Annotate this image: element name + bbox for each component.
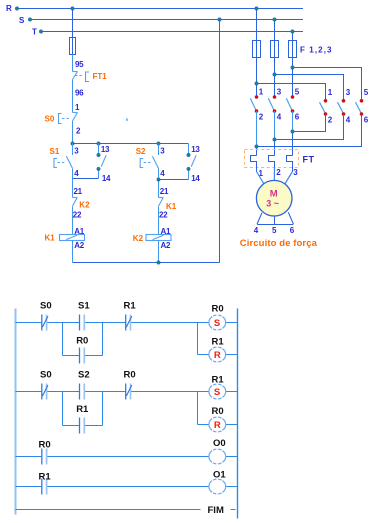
- svg-text:A2: A2: [161, 241, 171, 250]
- ladder right rail: [237, 309, 239, 519]
- svg-text:S2: S2: [78, 369, 90, 380]
- rung 3 wire segments: [16, 456, 42, 458]
- wire K2 to coil K1: [72, 207, 74, 235]
- svg-text:R: R: [214, 420, 221, 431]
- svg-text:R1: R1: [39, 471, 52, 482]
- svg-text:A2: A2: [74, 241, 84, 250]
- svg-text:FIM: FIM: [208, 505, 224, 516]
- svg-text:21: 21: [74, 187, 83, 196]
- junction S-L2: [273, 18, 276, 21]
- contactor K2 pole 5-6: [356, 102, 362, 113]
- wire FT1 to S0: [72, 80, 74, 113]
- svg-text:S1: S1: [50, 147, 60, 156]
- contact R1 rung1 NC: [125, 315, 127, 331]
- contact R1 parallel rung2 NO: [79, 418, 81, 434]
- wire join branch2: [158, 169, 160, 180]
- contact FT1 NC thermal: [73, 71, 78, 73]
- svg-text:4: 4: [74, 169, 79, 178]
- coil K1: [60, 235, 85, 241]
- parallel branch R1 rung2: [62, 392, 64, 426]
- wire L3 to heater: [292, 132, 294, 156]
- svg-text:6: 6: [364, 116, 369, 125]
- wire L2 contact lead down: [274, 111, 276, 140]
- svg-text:1: 1: [75, 103, 80, 112]
- contact S2 NO pushbutton: [158, 144, 160, 156]
- wire motor leads: [257, 168, 293, 185]
- heater element 3: [287, 156, 293, 172]
- svg-text:R0: R0: [124, 369, 136, 380]
- svg-text:R0: R0: [212, 304, 224, 315]
- wire fuse to FT1: [72, 55, 74, 72]
- svg-text:3: 3: [74, 147, 79, 156]
- svg-text:22: 22: [159, 211, 168, 220]
- svg-text:13: 13: [101, 145, 110, 154]
- svg-text:21: 21: [160, 187, 169, 196]
- wire phase T: [42, 31, 303, 33]
- svg-text:R1: R1: [212, 374, 225, 385]
- wire L3 to K2 pole5: [293, 68, 362, 101]
- wire FIM end line: [16, 509, 201, 511]
- svg-text:FT1: FT1: [93, 72, 108, 81]
- svg-text:S1: S1: [78, 301, 90, 312]
- wire R to fuse F1: [72, 9, 74, 38]
- svg-text:22: 22: [73, 211, 82, 220]
- coil R1 SET rung2: [209, 384, 226, 399]
- svg-text:O1: O1: [213, 470, 226, 481]
- svg-text:14: 14: [102, 174, 111, 183]
- junction L1 branch: [255, 82, 258, 85]
- svg-text:R1: R1: [76, 404, 89, 415]
- svg-text:13: 13: [191, 145, 200, 154]
- fuse F3: [289, 41, 297, 58]
- junction rail-b2: [157, 142, 160, 145]
- svg-text:3: 3: [346, 88, 351, 97]
- svg-text:R1: R1: [212, 337, 225, 348]
- svg-text:4: 4: [160, 169, 165, 178]
- wire bottom control rail: [73, 262, 220, 264]
- junction rail-aux1: [97, 142, 100, 145]
- svg-text:R0: R0: [76, 336, 88, 347]
- contact S0 rung2 NC: [41, 384, 43, 400]
- svg-text:S2: S2: [136, 147, 146, 156]
- junction join b2: [157, 178, 160, 181]
- contact S0 NC pushbutton: [73, 112, 78, 114]
- wire coil K1 to bottom rail: [72, 241, 74, 263]
- svg-text:Circuito de força: Circuito de força: [240, 238, 318, 249]
- wire join branch1: [72, 169, 74, 179]
- svg-text:96: 96: [75, 89, 84, 98]
- svg-text:95: 95: [75, 60, 84, 69]
- contactor K1 pole 1-2: [250, 98, 256, 110]
- svg-text:S: S: [214, 387, 220, 398]
- coil K2: [146, 235, 171, 241]
- svg-text:S0: S0: [40, 301, 52, 312]
- junction L2 branch: [273, 73, 276, 76]
- contact R0 parallel rung1 NO: [79, 348, 81, 364]
- junction crossover L1: [255, 145, 258, 148]
- contactor K2 pole 3-4: [338, 102, 344, 113]
- contact S0 rung1 NC: [41, 315, 43, 331]
- coil O0: [209, 449, 226, 464]
- svg-text:K2: K2: [133, 234, 144, 243]
- wire phase S: [30, 19, 303, 21]
- svg-text:FT: FT: [303, 155, 315, 165]
- svg-text:T: T: [32, 28, 37, 37]
- rung 1 wire segments: [16, 322, 42, 324]
- junction R-control: [71, 7, 74, 10]
- svg-text:3: 3: [160, 147, 165, 156]
- svg-text:F 1,2,3: F 1,2,3: [300, 46, 333, 55]
- contactor K2 pole 1-2: [320, 102, 326, 113]
- svg-text:K1: K1: [166, 202, 177, 211]
- heater element 2: [269, 156, 275, 168]
- svg-text:R1: R1: [124, 301, 137, 312]
- contact R0 rung3 NO: [41, 449, 43, 465]
- junction rail-b1: [71, 142, 74, 145]
- contact S2 rung2 NO: [79, 384, 81, 400]
- contact K2 NC branch1: [73, 197, 78, 199]
- svg-text:4: 4: [277, 113, 282, 122]
- fuse F2: [271, 41, 279, 58]
- wire L1 to K2 pole1: [257, 84, 326, 101]
- wire L3 contact lead down: [292, 111, 294, 132]
- svg-text:S0: S0: [45, 115, 55, 124]
- wire neutral from S phase: [219, 20, 221, 263]
- svg-text:S0: S0: [40, 369, 52, 380]
- wire L2 drop: [274, 20, 276, 41]
- thermal overload FT box: [245, 150, 299, 168]
- sub-branch to coil R1 RESET: [197, 323, 199, 355]
- contact K1 NC branch2: [159, 197, 164, 199]
- junction S-neutral: [218, 18, 221, 21]
- junction bottom rail: [157, 261, 160, 264]
- svg-text:3: 3: [277, 88, 282, 97]
- svg-text:S: S: [19, 16, 25, 25]
- svg-text:1: 1: [328, 88, 333, 97]
- coil O1: [209, 479, 226, 494]
- svg-text:R: R: [6, 4, 12, 13]
- svg-text:S: S: [214, 318, 220, 329]
- rung 4 wire segments: [16, 486, 42, 488]
- svg-text:K2: K2: [79, 201, 90, 210]
- contact R1 rung4 NO: [41, 479, 43, 495]
- junction crossover L3: [291, 130, 294, 133]
- contact R0 rung2 NC: [125, 384, 127, 400]
- svg-text:2: 2: [76, 127, 81, 136]
- wire S0 to rail: [72, 122, 74, 144]
- wire motor stem: [274, 216, 276, 225]
- svg-text:R0: R0: [212, 406, 224, 417]
- sub-branch to coil R0 RESET: [197, 392, 199, 425]
- contactor K1 pole 5-6: [286, 98, 292, 110]
- wire K2-2 to L3: [293, 114, 326, 132]
- contact K1 aux 13-14 branch1: [98, 144, 100, 156]
- svg-text:1: 1: [259, 88, 264, 97]
- svg-text:5: 5: [295, 88, 300, 97]
- svg-text:6: 6: [295, 113, 300, 122]
- svg-text:R0: R0: [39, 439, 51, 450]
- wire L1 to heater: [256, 147, 258, 156]
- svg-text:6: 6: [290, 226, 295, 235]
- svg-text:2: 2: [276, 168, 281, 177]
- svg-text:3 ~: 3 ~: [266, 199, 279, 209]
- svg-text:O0: O0: [213, 438, 226, 449]
- wire K2-4 to L2: [275, 114, 344, 140]
- svg-text:3: 3: [293, 168, 298, 177]
- wire L2 to heater: [274, 140, 276, 156]
- svg-text:5: 5: [364, 88, 369, 97]
- fuse F1 control: [70, 38, 76, 55]
- wire FIM right tick: [231, 509, 236, 511]
- coil R1 RESET rung1: [209, 347, 226, 362]
- wire L1 drop: [256, 9, 258, 41]
- contactor K1 pole 3-4: [268, 98, 274, 110]
- wire control rail: [73, 143, 189, 145]
- junction L3 branch: [291, 66, 294, 69]
- wire motor base: [257, 224, 293, 226]
- svg-text:4: 4: [254, 226, 259, 235]
- contact S1 NO pushbutton: [72, 144, 74, 156]
- wire K1 to coil K2: [158, 207, 160, 235]
- contact S1 rung1 NO: [79, 315, 81, 331]
- junction R-L1: [255, 7, 258, 10]
- coil R0 RESET rung2: [209, 417, 226, 432]
- fuse F1: [253, 41, 261, 58]
- motor terminal trapezoid: [257, 212, 293, 224]
- wire coil K2 to bottom rail: [158, 241, 160, 263]
- wire K2-6 to L1: [257, 114, 362, 147]
- wire L1 contact lead down: [256, 111, 258, 147]
- junction T-L3: [291, 30, 294, 33]
- svg-text:R: R: [214, 350, 221, 361]
- svg-text:2: 2: [259, 113, 264, 122]
- heater element 1: [251, 156, 257, 172]
- rung 2 wire segments: [16, 391, 42, 393]
- svg-text:5: 5: [272, 226, 277, 235]
- motor M 3~: [256, 180, 292, 216]
- svg-text:14: 14: [191, 174, 200, 183]
- ladder left rail: [15, 309, 17, 515]
- svg-text:2: 2: [328, 116, 333, 125]
- artifact dot: [126, 118, 128, 121]
- junction crossover L2: [273, 138, 276, 141]
- wire L2 to K2 pole3: [275, 75, 344, 101]
- wire phase R: [18, 8, 303, 10]
- contact K2 aux 13-14 branch2: [188, 144, 190, 156]
- parallel branch R0 rung1: [62, 323, 64, 356]
- coil R0 SET rung1: [209, 315, 226, 330]
- svg-text:K1: K1: [45, 234, 56, 243]
- svg-text:4: 4: [346, 116, 351, 125]
- wire L3 drop: [292, 32, 294, 41]
